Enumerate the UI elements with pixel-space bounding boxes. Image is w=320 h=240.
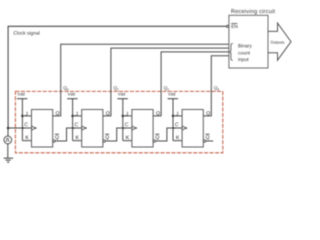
Qbar inversion bubble FF1 <box>53 140 55 142</box>
node J junction FF1 <box>21 115 24 118</box>
wire J stub FF4 <box>173 115 182 117</box>
wire Q3 output <box>203 56 229 116</box>
wire Q0 output <box>53 44 229 116</box>
dashed counter boundary <box>15 91 222 152</box>
node Q1 label <box>114 86 117 90</box>
flip-flop box U2 <box>82 110 103 148</box>
flip-flop FF2 <box>67 48 229 147</box>
pin label C FF2 <box>75 123 78 127</box>
wire J stub FF3 <box>123 115 132 117</box>
flip-flop FF1 <box>17 44 229 147</box>
clock edge triangle U3 <box>132 126 136 130</box>
Qbar inversion bubble FF2 <box>103 140 105 142</box>
pin label Q FF1 <box>56 111 60 116</box>
node J junction FF4 <box>172 115 175 118</box>
wire Qbar FF4 stub <box>206 140 214 142</box>
node Q3 label <box>214 86 217 90</box>
node clock branch <box>7 127 10 130</box>
node Q2 label <box>164 86 167 90</box>
flip-flop box U3 <box>132 110 153 148</box>
pin label K FF4 <box>176 136 179 140</box>
Vdd rail FF2 <box>68 92 75 95</box>
clock edge triangle U1 <box>32 126 36 130</box>
Vdd rail FF3 <box>118 92 125 95</box>
Qbar inversion bubble FF3 <box>153 140 155 142</box>
flip-flop FF3 <box>117 52 228 147</box>
wire clock source to EN (outer loop) <box>8 26 226 128</box>
outputs block arrow <box>268 23 291 60</box>
ground <box>4 158 13 162</box>
pin label C FF3 <box>125 123 128 127</box>
wire source to ground <box>7 144 9 158</box>
Qbar inversion bubble FF4 <box>203 140 205 142</box>
arrowhead C FF3 <box>122 127 125 130</box>
pin label C FF4 <box>175 123 178 127</box>
pin label J FF2 <box>75 112 77 116</box>
label binary count input <box>238 44 251 49</box>
node Q0 label <box>64 86 67 90</box>
pin label J FF4 <box>176 112 178 116</box>
flip-flop box U1 <box>32 110 53 148</box>
wire clock to FF1 C <box>8 127 31 129</box>
node J junction FF3 <box>122 115 125 118</box>
wire K stub FF3 <box>123 140 132 142</box>
Vdd rail FF4 <box>168 92 175 95</box>
wire K stub FF1 <box>22 140 31 142</box>
wire J stub FF1 <box>22 115 31 117</box>
wire branch to source <box>7 128 9 136</box>
pin label K FF2 <box>76 136 79 140</box>
clock source generator <box>4 136 12 144</box>
pin label K FF1 <box>26 136 29 140</box>
pin label C FF1 <box>25 123 28 127</box>
pin label Q FF3 <box>156 111 160 116</box>
wire Vdd drop FF1 <box>21 99 23 141</box>
node J junction FF2 <box>71 115 74 118</box>
pin label Qbar FF1 <box>55 135 59 140</box>
wire J stub FF2 <box>73 115 82 117</box>
pin label Qbar FF2 <box>105 135 109 140</box>
wire K stub FF4 <box>173 140 182 142</box>
wire Q1 output <box>103 48 229 116</box>
resolving circuit box <box>229 15 268 68</box>
Vdd rail FF1 <box>17 92 24 95</box>
title <box>231 9 275 14</box>
pin label Q FF2 <box>106 111 110 116</box>
pin label J FF3 <box>126 112 128 116</box>
clock signal label <box>14 31 40 36</box>
pin label J FF1 <box>25 112 27 116</box>
wire Qbar FF2 to C FF3 <box>105 128 132 141</box>
clock edge triangle U2 <box>82 126 86 130</box>
pin label EN (active low) <box>232 25 238 28</box>
wire Q2 output <box>153 52 229 116</box>
arrowhead C FF4 <box>173 127 176 130</box>
wire Vdd drop FF4 <box>172 99 174 141</box>
pin label Qbar FF4 <box>206 135 210 140</box>
wire Qbar FF3 to C FF4 <box>156 128 183 141</box>
brace binary count input <box>229 43 233 60</box>
label outputs <box>271 41 285 45</box>
pin label K FF3 <box>126 136 129 140</box>
flip-flop box U4 <box>182 110 203 148</box>
clock edge triangle U4 <box>182 126 186 130</box>
wire Vdd drop FF3 <box>122 99 124 141</box>
EN inversion bubble <box>227 25 229 27</box>
arrowhead C FF2 <box>72 127 75 130</box>
arrowhead C FF1 <box>22 127 25 130</box>
wire Vdd drop FF2 <box>72 99 74 141</box>
wire Qbar FF1 to C FF2 <box>55 128 82 141</box>
pin label Q FF4 <box>206 111 210 116</box>
pin label Qbar FF3 <box>156 135 160 140</box>
flip-flop FF4 <box>168 56 229 147</box>
wire K stub FF2 <box>73 140 82 142</box>
